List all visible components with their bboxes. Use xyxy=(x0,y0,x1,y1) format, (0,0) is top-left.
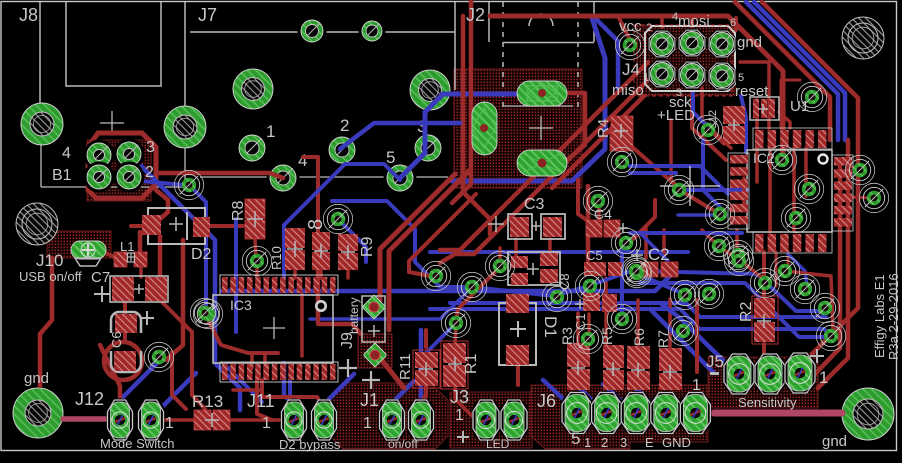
svg-text:R4: R4 xyxy=(595,119,612,138)
connector J6 pads xyxy=(561,391,711,435)
wire blue via626 down xyxy=(622,243,626,318)
wire red topright inner xyxy=(735,2,830,140)
via V23 at 809,189 xyxy=(794,174,823,203)
wire red diag to via679 xyxy=(614,131,680,189)
connector J11 pad 1 xyxy=(281,399,308,442)
svg-text:J12: J12 xyxy=(75,389,104,409)
capacitor C5 xyxy=(584,248,622,276)
C7 label xyxy=(91,269,110,286)
transistor Q1 xyxy=(508,252,560,285)
R11 label xyxy=(397,354,414,380)
IC2 bottom pins xyxy=(753,232,832,253)
R3a date label xyxy=(886,273,901,360)
svg-text:1: 1 xyxy=(643,72,649,84)
J2 label xyxy=(466,5,485,25)
svg-text:vcc: vcc xyxy=(619,18,642,35)
capacitor C9 xyxy=(312,232,330,270)
svg-text:J9: J9 xyxy=(339,332,356,349)
resistor R3 xyxy=(567,343,590,390)
J7 pin 3 xyxy=(412,132,445,165)
USB on/off label xyxy=(19,269,82,284)
wire red J4-3 down a xyxy=(692,88,726,160)
wire red IC2 bottom feed xyxy=(762,252,766,296)
wire red x578 top xyxy=(578,180,588,221)
wire red R3 up xyxy=(576,313,580,342)
wire red IC2 to via709 xyxy=(710,130,724,144)
connector J12 pad 1 xyxy=(107,399,134,442)
J12 label xyxy=(75,389,104,409)
wire red R7 up xyxy=(668,299,672,347)
mounting hole plain top-right xyxy=(842,17,884,59)
inductor L1 xyxy=(114,252,147,267)
wire red J5 to gnd ring xyxy=(714,410,842,417)
wire red J9 to J1 pour xyxy=(380,358,404,388)
wire blue topright diag 1 xyxy=(746,2,838,140)
wire blue J2 right edge xyxy=(452,18,605,181)
svg-text:C7: C7 xyxy=(91,269,110,286)
via V7 at 679,190 xyxy=(664,175,693,204)
svg-text:L1: L1 xyxy=(120,239,134,254)
wire red vert x140top xyxy=(138,232,143,252)
wire red x318 long xyxy=(318,237,361,334)
J7 pin labels xyxy=(266,116,426,170)
wire red D2 left xyxy=(131,224,148,228)
wire blue y173 xyxy=(630,171,676,175)
J7 peg B xyxy=(359,18,386,45)
Effigy Labs E1 label xyxy=(872,274,887,358)
wire red x671 stub xyxy=(671,120,680,189)
fiducial cross J2 xyxy=(529,116,553,140)
wire blue IC2 pad diag xyxy=(788,254,807,287)
J4 pin 1 xyxy=(647,59,677,89)
wire red J7-4 branch xyxy=(303,157,318,237)
via V26 at 874,198 xyxy=(859,183,888,212)
wire red bundleC xyxy=(552,96,644,188)
J4 pin 5 xyxy=(707,61,737,91)
svg-text:gnd: gnd xyxy=(822,433,847,450)
via V3 at 338,219 xyxy=(323,204,352,233)
wire red gnd to J12 xyxy=(63,416,108,422)
wire blue mid horizontal 1 xyxy=(430,250,688,254)
wire red via257 to IC3 xyxy=(255,265,259,277)
via R4 bottom xyxy=(607,147,636,176)
D1 label xyxy=(541,316,560,338)
wire red x697 down xyxy=(695,300,699,372)
R2 label xyxy=(738,301,755,322)
L1 label xyxy=(120,239,134,254)
svg-text:D1: D1 xyxy=(541,316,560,338)
capacitor C12 pads xyxy=(723,106,745,144)
wire red IC3 stub b xyxy=(319,270,323,278)
J7 peg A xyxy=(298,17,327,46)
svg-text:1: 1 xyxy=(584,435,591,450)
capacitor C3 xyxy=(488,196,565,239)
via V5 at 208,314 xyxy=(193,299,222,328)
gnd ring bottom-left xyxy=(13,388,63,438)
IC2 top pins xyxy=(753,128,832,149)
via 8 label xyxy=(305,219,327,230)
wire red via719 up xyxy=(702,230,719,247)
J3 pin1 label xyxy=(455,407,464,424)
svg-text:LED: LED xyxy=(486,437,510,451)
on/off label xyxy=(388,437,418,451)
svg-text:4: 4 xyxy=(62,145,71,162)
J4 labels xyxy=(612,11,769,124)
svg-text:D2: D2 xyxy=(191,246,212,263)
mounting hole plain left xyxy=(16,203,58,245)
wire red IC3 bot stub2 xyxy=(263,353,267,375)
svg-text:mosi: mosi xyxy=(678,13,710,30)
wire blue J7-5 E chain xyxy=(332,201,468,287)
wire red D2 to R8 xyxy=(210,224,243,228)
wire red IC3 stub c xyxy=(346,268,350,278)
svg-text:C4: C4 xyxy=(594,206,612,222)
J11 label xyxy=(247,391,275,411)
wire red J2 oval link xyxy=(566,93,585,160)
Sensitivity label xyxy=(738,395,797,410)
wire red diag to R1 xyxy=(456,268,499,320)
wire red R1 top xyxy=(455,326,456,343)
svg-text:J1: J1 xyxy=(360,390,379,410)
wire blue y233 div xyxy=(640,233,668,266)
svg-text:6: 6 xyxy=(730,17,736,29)
wire red C1 to R3 xyxy=(587,314,591,343)
via V34 at 805,289 xyxy=(790,274,819,303)
wire red d3 to via436 xyxy=(409,194,476,276)
wire blue x703 xyxy=(703,140,720,207)
wire red J2 left v1 xyxy=(463,16,490,234)
wire red J2 left v2 xyxy=(452,2,471,203)
wire red D1 bottom xyxy=(516,365,520,385)
capacitor C7 xyxy=(94,276,168,302)
wire red C7L down xyxy=(123,301,127,340)
via V11 at 557,297 xyxy=(542,282,571,311)
D2 label xyxy=(191,246,212,263)
wire red IC2 right a xyxy=(850,166,859,170)
IC2 body xyxy=(747,150,832,232)
wire red R8 to via xyxy=(255,239,256,258)
via V16 at 685,295 xyxy=(670,280,699,309)
wire red via679 cont xyxy=(683,192,716,212)
connector J4 outline xyxy=(634,25,735,96)
wire blue B1-3 diag xyxy=(131,156,240,410)
via V13 at 588,339 xyxy=(573,324,602,353)
svg-text:5: 5 xyxy=(571,429,580,448)
svg-text:Sensitivity: Sensitivity xyxy=(738,395,797,410)
wire blue J7-5 chain xyxy=(284,164,400,277)
connector J1 pad 1 xyxy=(379,399,406,442)
svg-text:R8: R8 xyxy=(230,200,247,221)
svg-text:3: 3 xyxy=(620,435,627,450)
resistor R9 xyxy=(338,234,358,270)
R10 label xyxy=(269,246,284,270)
wire blue bottom diag C xyxy=(226,366,262,402)
jack J2 outline xyxy=(455,2,594,110)
wire blue vert x236 xyxy=(234,219,238,332)
wire red left diagB xyxy=(172,352,186,409)
copper pour J5 region xyxy=(708,357,818,408)
R9 label xyxy=(359,236,376,257)
wire red x316 inner xyxy=(300,294,304,356)
svg-text:R11: R11 xyxy=(397,354,414,380)
svg-text:5: 5 xyxy=(386,148,395,167)
via V30 at 739,261 xyxy=(724,246,753,275)
wire red bundleB xyxy=(440,68,660,263)
wire blue IC2 row2 xyxy=(678,213,726,217)
J7 label xyxy=(198,5,217,25)
via V27 at 720,214 xyxy=(705,199,734,228)
svg-text:R13: R13 xyxy=(192,392,223,411)
svg-text:1: 1 xyxy=(266,122,275,141)
wire red L1 to C7 xyxy=(139,262,143,277)
wire red IC3 bot stub1 xyxy=(250,353,254,368)
wire red IC3 down2 xyxy=(257,380,272,420)
copper pour J4 region xyxy=(637,26,735,95)
resistor R8 xyxy=(245,199,265,239)
connector J2 pad top xyxy=(517,81,567,106)
wire blue via8 branch xyxy=(338,219,366,262)
copper pour J9 region xyxy=(358,334,392,368)
diode D1 xyxy=(499,294,536,365)
wire blue x206 vertical xyxy=(192,188,206,309)
Mode Switch label xyxy=(100,436,174,451)
Q1 label xyxy=(557,273,572,290)
via V10 at 456,323 xyxy=(441,308,470,337)
wire red R11 up xyxy=(424,330,428,347)
wire blue long y303 xyxy=(450,303,826,317)
resistor R7 xyxy=(659,348,682,390)
wire blue long y291 xyxy=(222,274,672,291)
svg-text:2: 2 xyxy=(646,22,652,34)
via V21 at 708,130 xyxy=(693,115,722,144)
battery B1 outline xyxy=(41,141,185,187)
svg-text:battery: battery xyxy=(347,297,361,334)
J9 pad2 xyxy=(364,343,386,367)
wire red IC2 right b xyxy=(850,197,872,198)
wire red C7 stub xyxy=(123,302,127,312)
connector J7 outline xyxy=(190,32,455,177)
resistor R2 xyxy=(752,296,778,344)
svg-text:R1: R1 xyxy=(463,353,480,374)
svg-text:C2: C2 xyxy=(648,245,670,264)
wire red J4 top a xyxy=(660,16,664,28)
wire red C3R down xyxy=(548,239,552,255)
via V20 at 812,97 xyxy=(797,82,826,111)
wire blue long y309 xyxy=(430,309,831,336)
wire blue J6 diag 4 xyxy=(633,386,662,412)
connector J10 pad xyxy=(71,241,106,266)
wire red R11 to J1 xyxy=(422,387,426,401)
svg-text:4: 4 xyxy=(298,151,307,170)
svg-text:J7: J7 xyxy=(198,5,217,25)
IC3 hole xyxy=(317,302,326,311)
via V2 at 257,261 xyxy=(242,246,271,275)
J9 pad xyxy=(363,295,385,319)
wire red via719 chain xyxy=(719,247,766,281)
wire red IC2 int2 xyxy=(768,148,772,232)
J5 pin1 label xyxy=(819,368,828,387)
gnd label bottom-left xyxy=(24,370,49,387)
J4 pin 6 xyxy=(707,29,737,59)
R1 label xyxy=(463,353,480,374)
svg-text:Mode Switch: Mode Switch xyxy=(100,436,174,451)
wire blue R11 vertical xyxy=(419,330,424,401)
J7 pin 2 xyxy=(326,134,359,167)
via V1 at 189,185 xyxy=(174,170,203,199)
wire red x848 to J5 xyxy=(818,140,848,388)
via V28 at 738,255 xyxy=(723,240,752,269)
connector J1 pad 2 xyxy=(408,399,435,442)
gnd ring bottom-right xyxy=(842,388,894,440)
wire blue J5 feed 1 xyxy=(660,303,735,372)
IC3 bottom pins xyxy=(220,362,338,382)
wire blue x284 down xyxy=(284,363,294,405)
svg-text:R6: R6 xyxy=(631,328,647,346)
capacitor C1 xyxy=(575,293,617,312)
via V17 at 683,331 xyxy=(668,316,697,345)
capacitor C6 xyxy=(111,311,154,372)
R4 label xyxy=(595,119,612,138)
J1 label xyxy=(360,390,379,410)
svg-text:Effigy Labs E1: Effigy Labs E1 xyxy=(872,274,887,358)
wire blue topright diag 2 xyxy=(754,2,845,140)
svg-text:C1: C1 xyxy=(573,313,588,330)
connector J3 pad 1 xyxy=(472,399,500,442)
via V25 at 860,170 xyxy=(845,155,874,184)
B1 labels xyxy=(52,139,155,184)
wire blue y233 xyxy=(630,231,742,235)
R3 label xyxy=(559,327,575,345)
wire red C3L down xyxy=(514,239,518,256)
J3 plus xyxy=(457,431,469,443)
wire red IC2 int4 xyxy=(804,148,808,196)
wire red IC2 left stub1 xyxy=(735,230,739,252)
wire blue J5 feed 2 xyxy=(650,309,713,372)
svg-text:J2: J2 xyxy=(466,5,485,25)
IC2 left pins xyxy=(728,153,749,229)
wire red J4-3 down b xyxy=(702,88,731,148)
wire red left diagA xyxy=(160,300,205,409)
via V22 at 782,160 xyxy=(767,145,796,174)
wire red vert x160 xyxy=(158,236,163,278)
wire red IC2 int1 xyxy=(755,148,759,182)
connector J2 pad left xyxy=(472,102,497,155)
IC3 top pins xyxy=(220,275,338,295)
svg-text:B1: B1 xyxy=(52,167,72,184)
wire red R1 to J3 xyxy=(455,387,472,416)
R5 label xyxy=(599,327,615,345)
wire blue J6 diag 2 xyxy=(571,380,602,410)
resistor R5 xyxy=(603,345,624,390)
wire red C2L feed xyxy=(644,228,648,258)
svg-text:R3: R3 xyxy=(559,327,575,345)
battery holder B1 pads xyxy=(84,139,145,193)
wire red to J4 via xyxy=(618,16,630,40)
svg-text:R5: R5 xyxy=(599,327,615,345)
svg-text:J8: J8 xyxy=(19,5,38,25)
wire blue cluster R xyxy=(640,271,825,311)
svg-text:1: 1 xyxy=(363,415,372,432)
svg-text:J6: J6 xyxy=(537,391,556,411)
via V19 at 636,271 xyxy=(621,256,650,285)
diode D2 xyxy=(142,208,210,244)
wire red R6 up xyxy=(636,300,640,345)
connector J2 pad bottom xyxy=(517,150,567,176)
via V24 at 796,218 xyxy=(781,203,810,232)
svg-text:C6: C6 xyxy=(109,331,124,348)
mounting hole J7-right (green) xyxy=(410,70,450,110)
connector J9 outline xyxy=(362,296,385,342)
R6 label xyxy=(631,328,647,346)
resistor R11 xyxy=(413,350,440,388)
wire blue J1-1 up xyxy=(392,381,414,403)
svg-text:miso: miso xyxy=(612,82,644,99)
svg-text:1: 1 xyxy=(262,415,271,432)
wire red IC3 via path xyxy=(208,320,278,353)
svg-text:1: 1 xyxy=(165,415,174,432)
wire red J10 down to gnd xyxy=(40,258,52,386)
wire red IC2 left stub2 xyxy=(742,178,746,205)
resistor R13 xyxy=(194,410,230,430)
J6 pin labels xyxy=(571,429,691,450)
wire red J12 to R13 xyxy=(163,418,194,422)
svg-text:J5: J5 xyxy=(706,352,724,371)
wire red IC2 bottom feeds2 xyxy=(776,252,788,286)
wire red J4 pin4 up xyxy=(690,18,694,43)
D2 bypass label xyxy=(279,437,341,452)
wire red C2R feed xyxy=(662,230,666,258)
wire red C6 to J12 xyxy=(100,345,120,400)
via C4 xyxy=(583,186,612,215)
wire red via629 up xyxy=(629,200,655,243)
mounting hole top-left (green) xyxy=(21,103,63,145)
C1 label xyxy=(573,313,588,330)
J5 plus xyxy=(810,349,824,363)
LED label xyxy=(486,437,510,451)
wire red IC2 int5 xyxy=(780,148,784,158)
copper pour J2 region xyxy=(454,69,582,188)
resistor R1 xyxy=(441,341,468,389)
via V37 at 205,313 xyxy=(190,298,219,327)
wire red d2 to J9 xyxy=(389,170,470,330)
svg-text:1: 1 xyxy=(692,377,701,394)
wire red IC2 int3 xyxy=(792,148,796,230)
wire blue y166 xyxy=(630,166,728,194)
svg-text:+LED: +LED xyxy=(657,107,695,124)
J9 crosses xyxy=(339,325,380,389)
via V8 at 500,266 xyxy=(485,251,514,280)
J7 pin 4 xyxy=(267,162,300,195)
wire blue cluster S xyxy=(640,283,831,337)
svg-text:IC3: IC3 xyxy=(230,297,252,313)
svg-text:J11: J11 xyxy=(247,391,275,411)
via V14 at 622,319 xyxy=(607,304,636,333)
via V15 at 637,273 xyxy=(622,258,651,287)
resistor R10 xyxy=(285,228,305,270)
J3 label xyxy=(450,387,469,407)
wire red R5 up xyxy=(604,278,608,345)
wire blue J12-1 up xyxy=(120,362,158,400)
via V6 at 436,276 xyxy=(421,261,450,290)
svg-text:1: 1 xyxy=(455,407,464,424)
svg-text:C8: C8 xyxy=(557,273,572,290)
wire red x840 to J5 xyxy=(812,160,840,377)
wire red x588 vertical xyxy=(586,186,591,260)
J7 pin 1 xyxy=(236,132,269,165)
svg-text:J3: J3 xyxy=(450,387,469,407)
R7 label xyxy=(655,330,671,348)
svg-text:E: E xyxy=(645,435,654,450)
